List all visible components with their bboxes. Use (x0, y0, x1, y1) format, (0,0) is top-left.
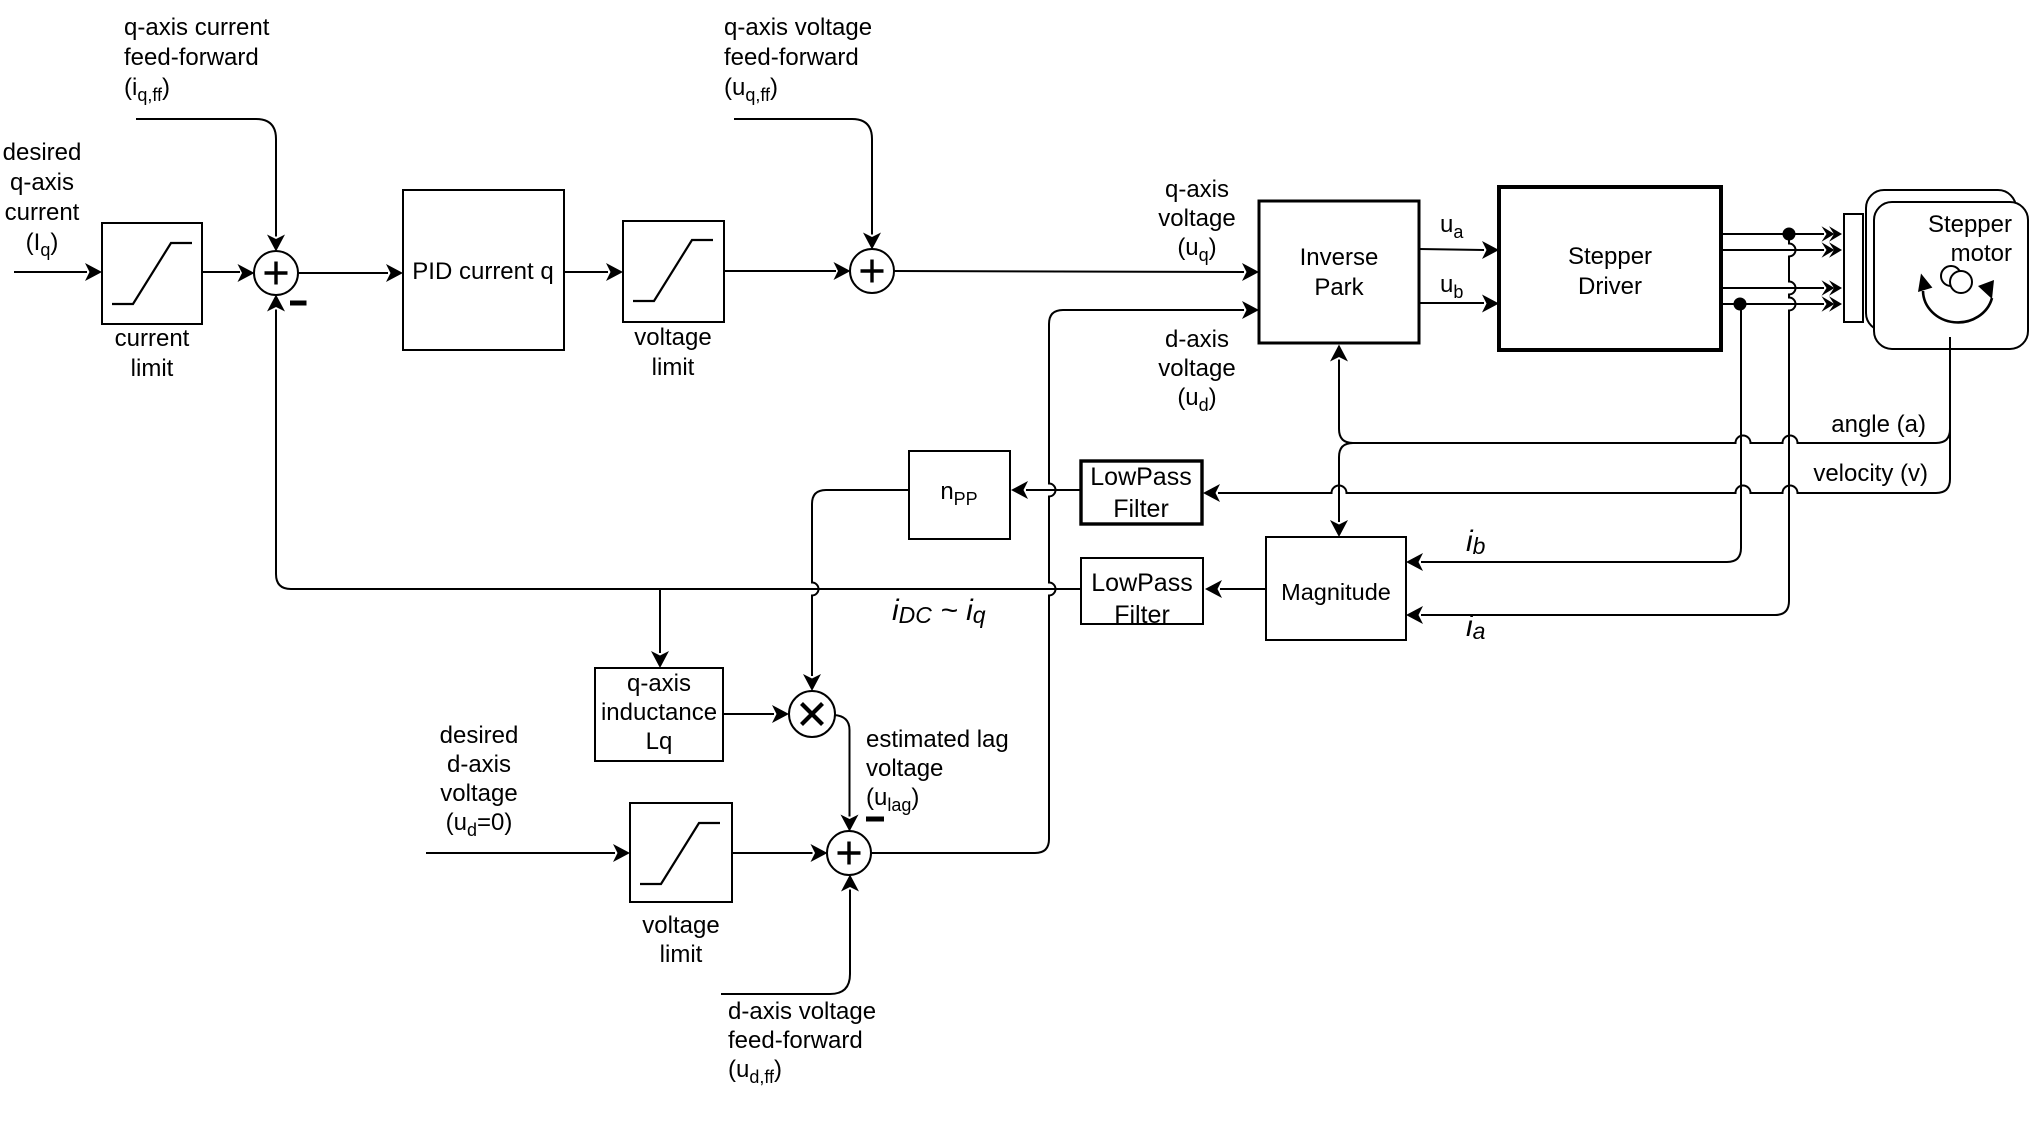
svg-text:feed-forward: feed-forward (124, 44, 259, 71)
svg-text:voltage: voltage (642, 912, 719, 939)
svg-text:d-axis voltage: d-axis voltage (728, 998, 876, 1025)
svg-text:current: current (5, 199, 80, 226)
svg-text:(ud,ff): (ud,ff) (728, 1056, 782, 1087)
svg-text:d-axis: d-axis (1165, 326, 1229, 353)
svg-text:q-axis voltage: q-axis voltage (724, 14, 872, 41)
svg-text:d-axis: d-axis (447, 751, 511, 778)
svg-text:iDC ~ iq: iDC ~ iq (892, 594, 986, 628)
svg-text:motor: motor (1951, 240, 2012, 267)
svg-text:feed-forward: feed-forward (724, 44, 859, 71)
svg-text:Magnitude: Magnitude (1281, 579, 1391, 605)
svg-text:q-axis: q-axis (10, 169, 74, 196)
svg-text:(Iq): (Iq) (26, 229, 59, 260)
svg-text:voltage: voltage (634, 324, 711, 351)
svg-text:q-axis current: q-axis current (124, 14, 270, 41)
svg-text:Driver: Driver (1578, 273, 1642, 300)
svg-text:voltage: voltage (1158, 205, 1235, 232)
svg-text:(ud): (ud) (1177, 384, 1216, 415)
svg-text:limit: limit (131, 355, 174, 382)
svg-text:LowPass: LowPass (1090, 463, 1191, 491)
svg-text:ua: ua (1440, 211, 1464, 242)
svg-text:(ulag): (ulag) (866, 784, 919, 815)
svg-text:desired: desired (440, 722, 519, 749)
svg-text:q-axis: q-axis (1165, 176, 1229, 203)
svg-text:q-axis: q-axis (627, 670, 691, 697)
svg-text:limit: limit (652, 354, 695, 381)
svg-text:(iq,ff): (iq,ff) (124, 74, 170, 105)
svg-text:(ud=0): (ud=0) (446, 809, 513, 840)
svg-text:Stepper: Stepper (1568, 243, 1652, 270)
svg-text:PID current q: PID current q (412, 258, 553, 285)
svg-text:estimated lag: estimated lag (866, 726, 1009, 753)
svg-text:Filter: Filter (1113, 495, 1169, 523)
svg-text:inductance: inductance (601, 699, 717, 726)
svg-text:desired: desired (3, 139, 82, 166)
svg-text:feed-forward: feed-forward (728, 1027, 863, 1054)
svg-text:limit: limit (660, 941, 703, 968)
svg-text:(uq): (uq) (1177, 234, 1216, 265)
svg-text:Filter: Filter (1114, 601, 1170, 629)
svg-text:ib: ib (1466, 525, 1486, 559)
svg-text:LowPass: LowPass (1091, 569, 1192, 597)
svg-text:voltage: voltage (866, 755, 943, 782)
svg-text:Inverse: Inverse (1300, 244, 1379, 271)
svg-text:current: current (115, 325, 190, 352)
svg-text:Lq: Lq (646, 728, 673, 755)
svg-text:(uq,ff): (uq,ff) (724, 74, 778, 105)
svg-text:velocity (v): velocity (v) (1813, 460, 1928, 487)
svg-text:voltage: voltage (1158, 355, 1235, 382)
svg-text:Park: Park (1314, 274, 1364, 301)
svg-text:voltage: voltage (440, 780, 517, 807)
svg-text:ub: ub (1440, 271, 1463, 302)
svg-text:angle (a): angle (a) (1831, 411, 1926, 438)
svg-text:Stepper: Stepper (1928, 211, 2012, 238)
